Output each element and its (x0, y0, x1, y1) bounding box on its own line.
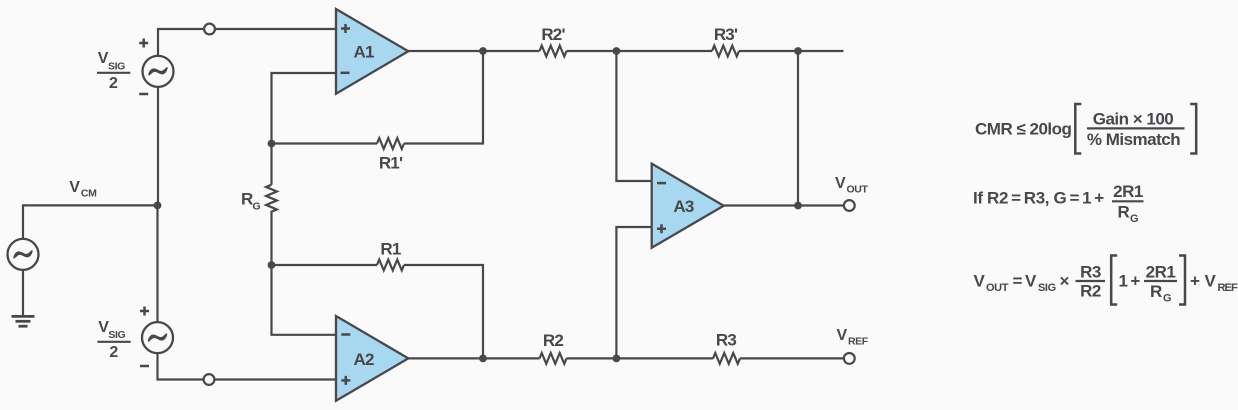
resistor R3' (712, 46, 739, 57)
svg-text:% Mismatch: % Mismatch (1087, 130, 1180, 149)
wire A3 inverting branch from top mid junction (616, 51, 651, 181)
svg-text:R2: R2 (543, 331, 563, 350)
junction RG top node (268, 140, 276, 148)
source VCM circle (8, 239, 39, 270)
junction VOUT (794, 202, 802, 210)
plus sign bottom source (140, 307, 149, 316)
label VREF (837, 327, 869, 348)
resistor R1 (377, 260, 404, 271)
wire R2 to R3 (567, 357, 714, 359)
label VOUT (835, 175, 868, 196)
junction top mid (R2'-R3') (613, 47, 621, 55)
svg-text:R3: R3 (1080, 263, 1101, 282)
wire A1 output to R2' (408, 50, 539, 52)
wire A3 non-inverting branch from bottom mid junction (616, 227, 651, 358)
svg-text:OUT: OUT (847, 184, 869, 196)
svg-text:R: R (1150, 282, 1162, 301)
label VCM (69, 179, 97, 200)
node open circle top rail (204, 24, 215, 35)
svg-text:OUT: OUT (986, 282, 1009, 294)
svg-text:×: × (1060, 272, 1070, 291)
svg-text:1 +: 1 + (1119, 272, 1141, 291)
equation 2: If R2 = R3, G = 1 + 2R1/RG (973, 182, 1144, 225)
svg-text:R2: R2 (1080, 282, 1101, 301)
wire R1 to A2 output junction (404, 265, 483, 358)
wire RG node to RG resistor (270, 144, 272, 185)
svg-text:A3: A3 (673, 197, 693, 216)
equation 3: VOUT = VSIG x R3/R2 [1 + 2R1/RG] + VREF (974, 256, 1238, 305)
op-amp A3 (652, 164, 724, 248)
wire VCM junction to bottom source (156, 205, 158, 322)
wire R3 to VREF terminal (740, 357, 844, 359)
label VSIG/2 bottom (97, 319, 130, 361)
svg-text:Gain × 100: Gain × 100 (1093, 109, 1174, 128)
svg-text:V: V (69, 179, 80, 196)
svg-text:CMR ≤ 20log: CMR ≤ 20log (975, 120, 1072, 139)
wire left source to ground (22, 270, 24, 316)
svg-text:If R2 = R3, G = 1 +: If R2 = R3, G = 1 + (973, 189, 1104, 208)
svg-text:G: G (253, 201, 261, 213)
resistor RG (266, 185, 277, 212)
wire RG to R1 node (270, 211, 272, 265)
op-amp A2 (336, 316, 408, 401)
label VSIG/2 top (97, 50, 130, 92)
svg-text:2: 2 (109, 75, 118, 92)
wire VOUT feedback from top right junction (797, 51, 799, 206)
svg-text:REF: REF (1218, 282, 1238, 294)
wire R2' to R3' (567, 50, 713, 52)
svg-text:2R1: 2R1 (1146, 263, 1176, 282)
svg-text:V: V (974, 272, 986, 291)
svg-text:R3: R3 (716, 331, 736, 350)
svg-text:V: V (835, 175, 846, 192)
svg-text:CM: CM (81, 188, 97, 200)
wire A2 inverting input from R1 node (272, 265, 337, 335)
svg-text:V: V (837, 327, 848, 344)
svg-text:2R1: 2R1 (1113, 182, 1143, 201)
svg-text:V: V (1025, 272, 1037, 291)
svg-text:R: R (241, 190, 253, 209)
junction RG bottom node (268, 261, 276, 269)
svg-text:G: G (1130, 213, 1138, 225)
svg-text:SIG: SIG (108, 60, 125, 72)
source VSIG top circle (143, 56, 174, 87)
svg-text:SIG: SIG (108, 329, 125, 341)
wire top source to VCM junction (157, 87, 159, 205)
source VSIG bottom circle (142, 322, 173, 353)
junction A2 output (479, 355, 487, 363)
svg-text:V: V (1205, 272, 1217, 291)
ground (12, 316, 35, 326)
wire VCM rail to left source (23, 205, 158, 239)
resistor R2 (540, 353, 567, 364)
terminal VREF (844, 353, 855, 364)
minus sign top source (139, 93, 148, 96)
svg-text:G: G (1163, 293, 1171, 305)
svg-text:R3': R3' (714, 25, 738, 44)
wire R3' to top right end (739, 50, 844, 52)
junction A1 output (479, 47, 487, 55)
wire A1 inverting input from RG node (272, 73, 337, 144)
svg-text:=: = (1013, 272, 1023, 291)
resistor R1' (377, 138, 404, 149)
resistor R2' (540, 46, 567, 57)
svg-text:R2': R2' (541, 25, 565, 44)
resistor R3 (713, 353, 740, 364)
svg-text:R: R (1118, 203, 1130, 222)
op-amp A1 (336, 9, 408, 94)
equation 1: CMR <= 20log [ Gain x 100 / % Mismatch ] (975, 104, 1196, 154)
wire R1' to A1 output junction (404, 51, 483, 144)
terminal VOUT (844, 200, 855, 211)
svg-text:2: 2 (109, 344, 118, 361)
svg-text:R1': R1' (379, 154, 403, 173)
junction top right (R3' end) (794, 47, 802, 55)
svg-text:A1: A1 (354, 43, 374, 62)
wire bottom rail from bottom source to A2 + input (158, 354, 337, 380)
plus sign top source (139, 39, 148, 48)
svg-text:SIG: SIG (1038, 282, 1056, 294)
wire A3 output to VOUT terminal (724, 204, 844, 206)
junction bottom mid (R2-R3) (613, 355, 621, 363)
junction VCM (154, 202, 162, 210)
svg-text:A2: A2 (354, 350, 374, 369)
label RG (241, 190, 261, 213)
svg-text:+: + (1190, 272, 1200, 291)
minus sign bottom source (140, 365, 149, 368)
wire R1 rail left (272, 264, 378, 266)
wire A2 output to R2 (408, 357, 539, 359)
svg-text:REF: REF (848, 336, 869, 348)
wire R1' rail left (272, 142, 378, 144)
svg-text:R1: R1 (380, 240, 400, 259)
wire top rail from top source to A1 + input (158, 29, 336, 56)
node open circle bottom rail (204, 374, 215, 385)
